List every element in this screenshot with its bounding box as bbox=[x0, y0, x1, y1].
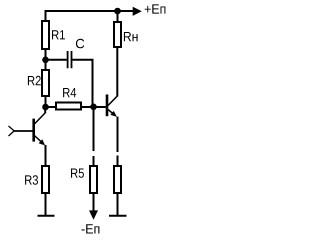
resistor R2 bbox=[42, 70, 49, 96]
capacitor C plates bbox=[68, 51, 72, 68]
node junction top rail / Rн bbox=[114, 8, 121, 15]
label R1 bbox=[52, 30, 65, 39]
wire R5 bottom to -Ep arrow bbox=[93, 193, 95, 211]
label R5 bbox=[71, 169, 84, 178]
node junction R1/R2/C bbox=[42, 57, 49, 64]
transistor Q2 collector lead bbox=[108, 96, 117, 105]
resistor R3 bbox=[42, 166, 49, 193]
transistor Q2 emitter arrowhead bbox=[110, 111, 117, 117]
wire base node down to R5 (with break) bbox=[93, 107, 95, 166]
wire R1 bottom to R2 top through node bbox=[45, 49, 47, 70]
label -Еп bbox=[82, 224, 100, 233]
transistor Q1 emitter lead bbox=[34, 136, 43, 144]
power -Еп arrow bbox=[89, 210, 98, 219]
resistor R6 (unlabeled, emitter of Q2) bbox=[114, 166, 121, 193]
label R3 bbox=[25, 175, 38, 185]
ground right bbox=[109, 215, 127, 217]
node junction R4/C/Q2 base/R5 bbox=[90, 104, 97, 111]
wire node to R4 left bbox=[46, 106, 57, 108]
label R4 bbox=[63, 88, 76, 97]
resistor R1 bbox=[42, 21, 49, 49]
label C bbox=[76, 39, 84, 49]
power +Еп arrow bbox=[133, 7, 142, 16]
resistor R4 bbox=[56, 103, 81, 110]
wire top rail from R1 corner to +Ep arrow bbox=[45, 11, 134, 21]
input terminal open arrow bbox=[9, 126, 15, 136]
wire R2 bottom to collector node bbox=[45, 96, 47, 107]
transistor Q2 emitter lead bbox=[108, 110, 114, 115]
wire base node to Q2 base bar bbox=[94, 106, 106, 108]
wire from top rail node down to Rн bbox=[117, 11, 119, 22]
wire capacitor right plate to corner and down to base node bbox=[72, 60, 92, 106]
label +Еп bbox=[145, 4, 166, 13]
transistor Q1 emitter arrowhead bbox=[39, 139, 46, 145]
wire Q2 emitter down to bottom resistor (with break) bbox=[117, 117, 119, 166]
wire R3 bottom to ground bbox=[45, 193, 47, 215]
node junction R2/R4/Q1 collector bbox=[42, 104, 49, 111]
transistor Q1 base bar bbox=[32, 119, 35, 142]
wire node to capacitor left plate bbox=[46, 59, 67, 61]
wire R4 right to base node bbox=[81, 106, 94, 108]
wire input terminal to Q1 base bbox=[14, 130, 34, 132]
resistor Rн bbox=[114, 22, 121, 47]
label Rн bbox=[124, 32, 138, 41]
resistor R5 bbox=[90, 166, 97, 193]
transistor Q2 base bar bbox=[106, 95, 109, 117]
wire Q1 emitter down to R3 bbox=[45, 145, 47, 166]
wire R6 bottom to ground bbox=[117, 193, 119, 215]
label R2 bbox=[28, 76, 41, 85]
ground left bbox=[38, 215, 55, 217]
transistor Q1 collector lead bbox=[34, 113, 45, 124]
